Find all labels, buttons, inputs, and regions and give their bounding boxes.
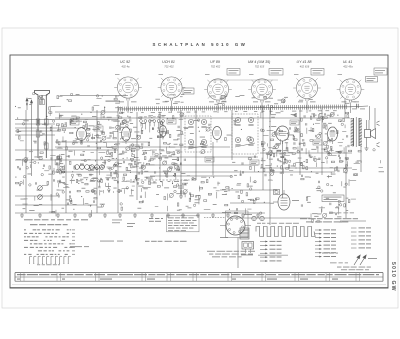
table brace labels: [100, 240, 114, 243]
wire: [15, 119, 118, 121]
tube envelope V6: [328, 127, 338, 144]
callout box near U5: [311, 69, 324, 76]
IF transformer can Fi2 (dashed box): [232, 114, 258, 154]
svg-text:UC 92: UC 92: [120, 60, 130, 64]
wire: [25, 110, 27, 213]
tube socket U1 UC 92: [114, 60, 142, 102]
svg-text:702 402: 702 402: [164, 64, 174, 68]
wire: [345, 146, 347, 218]
ground: [256, 213, 260, 217]
wire: [220, 189, 277, 191]
wire: [230, 217, 310, 219]
antenna arrows: [26, 98, 33, 110]
tube drop wires: [127, 101, 129, 114]
potentiometer P2: [38, 195, 43, 200]
callout box right of U6: [366, 77, 378, 83]
tube socket U6 UL 41: [337, 60, 365, 102]
fuse boxes above rectifier: [274, 190, 280, 195]
ground: [56, 213, 60, 217]
wire: [299, 108, 301, 175]
measurement note: [300, 218, 307, 219]
tube envelope V2: [122, 127, 131, 144]
comb end wire: [350, 105, 368, 108]
svg-text:UL 41: UL 41: [343, 60, 353, 64]
antenna coil former: [35, 91, 50, 159]
ground: [133, 213, 137, 217]
boxed note: [167, 216, 200, 232]
svg-text:402 816: 402 816: [300, 64, 310, 68]
wire: [55, 111, 118, 113]
wire: [260, 167, 352, 169]
ground: [166, 213, 170, 217]
wire: [117, 106, 119, 213]
wire: [15, 195, 60, 197]
line filter box: [242, 242, 254, 250]
ground: [38, 213, 42, 217]
wire: [31, 110, 33, 176]
tube envelope V3: [160, 126, 167, 140]
bottom parts table: [15, 273, 383, 282]
wire: [15, 159, 140, 161]
table row 1 text: [17, 274, 26, 275]
coupling capacitor C mid: [180, 180, 182, 186]
wire: [15, 127, 76, 129]
table row 2 text: [17, 279, 20, 280]
svg-text:UF 89: UF 89: [210, 60, 220, 64]
wire: [55, 171, 335, 173]
notes text block: [149, 218, 153, 219]
boxed label GLEICHRICHTER: [322, 195, 344, 202]
wire: [145, 164, 258, 166]
output transformer: [351, 117, 362, 147]
legend heading text: [24, 219, 33, 220]
wire colour callouts column C: [351, 227, 357, 229]
frame bottom emphasis: [10, 287, 388, 289]
antenna coil windings: [36, 119, 40, 125]
wire: [282, 141, 284, 198]
ground: [150, 213, 154, 217]
ground: [118, 213, 122, 217]
ground speaker: [365, 146, 369, 150]
wire: [159, 112, 161, 180]
wire colour callouts column B: [315, 229, 322, 231]
wire: [55, 146, 230, 148]
ground: [88, 213, 92, 217]
potentiometer P1: [38, 186, 43, 191]
wire: [340, 220, 366, 222]
tube envelope V5: [276, 126, 289, 144]
wire: [260, 152, 352, 154]
wire: [15, 123, 55, 125]
wire colour callouts column A: [260, 241, 268, 243]
svg-text:402 4a: 402 4a: [122, 64, 130, 68]
wire dashed: [130, 179, 196, 181]
svg-text:UCH 81: UCH 81: [162, 60, 175, 64]
gemessen small left: [112, 219, 122, 222]
ground: [181, 213, 185, 217]
coil block beside socket: [240, 228, 249, 239]
wire: [15, 149, 118, 151]
switch position table: [24, 228, 26, 231]
svg-text:5010 GW: 5010 GW: [390, 262, 396, 292]
tube envelope V4: [213, 127, 222, 143]
tube socket U3 UF 89: [204, 60, 232, 102]
rectifier tube UY: [273, 190, 299, 210]
ground: [241, 213, 245, 217]
heater dropper resistor (square wave): [256, 227, 315, 237]
mains plug arrows: [354, 255, 366, 265]
ground: [73, 213, 77, 217]
wire: [55, 141, 150, 143]
wire: [136, 112, 138, 200]
label connector line: [213, 79, 278, 81]
tube socket bottom view: [220, 212, 252, 238]
socket surround box: [226, 211, 249, 238]
dashed stub to socket: [204, 217, 226, 219]
svg-text:UY 41 88: UY 41 88: [297, 60, 312, 64]
callout box near U2: [183, 88, 194, 94]
footer small text right: [337, 266, 342, 269]
speaker: [365, 120, 380, 147]
wire: [344, 99, 346, 118]
callout box top right: [374, 68, 387, 75]
wire: [15, 130, 60, 132]
tube socket U5 UY 41 88: [293, 60, 321, 102]
pin number labels under comb: [121, 111, 124, 114]
svg-text:702 402: 702 402: [211, 64, 221, 68]
wire: [212, 142, 214, 175]
svg-text:SCHALTPLAN 5010 GW: SCHALTPLAN 5010 GW: [153, 42, 248, 47]
wire: [180, 110, 182, 196]
callout box near U3: [227, 69, 240, 76]
wire: [360, 146, 362, 172]
wire: [269, 108, 271, 225]
gemessen note top: [330, 211, 336, 214]
small label left of U1: [106, 101, 121, 102]
wire: [60, 95, 128, 97]
tube socket U2 UCH 81: [158, 60, 186, 102]
socket drop wire: [237, 238, 239, 269]
small F2 note: [127, 222, 135, 225]
wire: [51, 125, 53, 213]
chassis comb line: [118, 105, 350, 112]
wire: [262, 108, 264, 190]
winding stroke diagram: [29, 256, 71, 264]
winding note lines bottom middle: [207, 250, 215, 253]
wire: [374, 108, 376, 128]
band switch wafers: [75, 165, 80, 170]
switch contact row: [140, 120, 143, 123]
svg-text:402 45a: 402 45a: [343, 64, 353, 68]
ground: [103, 213, 107, 217]
wire: [195, 110, 197, 180]
wire: [55, 117, 350, 119]
wire: [65, 140, 67, 213]
IF transformer can Fi1 (dashed box): [185, 116, 211, 152]
electrolytic capacitors: [252, 216, 256, 220]
wire: [230, 202, 270, 204]
wire: [231, 110, 233, 160]
wire: [15, 212, 265, 214]
component scatter field: [17, 130, 20, 133]
pin label band under tubes: [165, 100, 169, 103]
small boxed labels in circuit: [94, 126, 103, 131]
ground: [226, 213, 230, 217]
ground: [211, 213, 215, 217]
tube socket U4 UM 4 (UM 35): [248, 60, 276, 102]
schematic border frame: [10, 55, 388, 288]
legend sub heading: [30, 224, 38, 225]
tube envelope V1: [77, 128, 87, 144]
ground mid: [179, 194, 183, 198]
wire: [15, 204, 97, 206]
ground: [20, 213, 24, 217]
svg-text:702 815: 702 815: [255, 64, 265, 68]
wire: [321, 108, 323, 175]
callout box near U4: [269, 69, 283, 76]
svg-text:UM 4 (UM 35): UM 4 (UM 35): [248, 60, 271, 64]
ground: [196, 213, 200, 217]
wire: [150, 156, 258, 158]
wire: [150, 175, 232, 177]
wire: [96, 110, 98, 213]
wire: [15, 134, 55, 136]
